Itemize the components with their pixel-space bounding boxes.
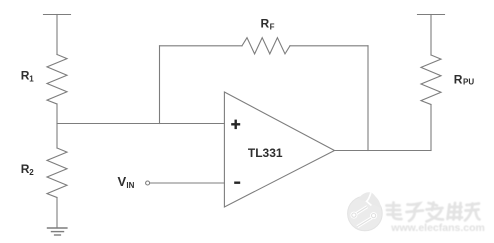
- svg-text:F: F: [270, 23, 275, 32]
- resistor R1: [47, 55, 67, 105]
- op-amp minus input marker: [234, 181, 240, 183]
- svg-text:R: R: [454, 73, 463, 87]
- watermark text 电子发烧友 (approximated strokes): [387, 203, 480, 222]
- wire: [56, 198, 58, 229]
- svg-text:PU: PU: [463, 78, 474, 87]
- wire: [56, 15, 58, 55]
- svg-text:www.elecfans.com: www.elecfans.com: [390, 222, 485, 234]
- wire feedback top right: [290, 45, 368, 47]
- watermark logo elecfans: [348, 192, 383, 231]
- op-amp U1 TL331 triangle: [224, 92, 334, 207]
- resistor R2: [47, 148, 67, 198]
- svg-text:1: 1: [29, 74, 34, 83]
- svg-text:R: R: [261, 17, 270, 31]
- svg-text:2: 2: [29, 168, 34, 177]
- wire: [430, 15, 432, 56]
- svg-text:IN: IN: [126, 181, 134, 190]
- op-amp plus input marker: [231, 120, 240, 130]
- svg-text:V: V: [118, 174, 127, 189]
- resistor RPU: [421, 55, 441, 105]
- terminal VIN open circle: [146, 181, 150, 185]
- wire feedback left vertical: [159, 46, 161, 124]
- power rail V+ left (T-bar): [44, 14, 71, 16]
- ground: [48, 228, 67, 235]
- wire output: [335, 150, 432, 152]
- wire VIN to inverting input: [150, 182, 224, 184]
- wire feedback right vertical: [367, 46, 369, 151]
- node A wire to noninverting input: [57, 123, 224, 125]
- svg-text:TL331: TL331: [248, 146, 283, 160]
- resistor RF: [242, 38, 290, 54]
- power rail V+ right (T-bar): [418, 14, 445, 16]
- wire: [56, 104, 58, 148]
- wire: [430, 105, 432, 151]
- wire feedback top left: [160, 45, 243, 47]
